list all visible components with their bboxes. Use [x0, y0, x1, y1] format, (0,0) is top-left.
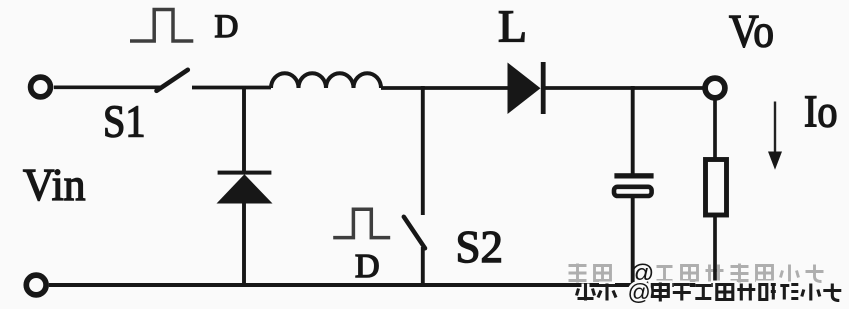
svg-text:Io: Io	[804, 87, 838, 137]
node wire: top rail down to capacitor	[631, 86, 635, 174]
capacitor bottom plate (hollow)	[614, 187, 652, 196]
wire S1 to inductor	[192, 86, 271, 90]
wire S2 to bottom rail	[421, 247, 425, 285]
wire capacitor to bottom rail	[631, 197, 635, 285]
node wire: top rail down to S2	[421, 86, 425, 215]
svg-text:D: D	[215, 9, 239, 45]
svg-text:D: D	[355, 248, 380, 285]
terminal Vin- (bottom-left)	[26, 275, 46, 295]
switch S2 blade	[404, 217, 425, 249]
switch S1 blade	[157, 70, 188, 91]
diode D1 cathode bar	[541, 62, 546, 114]
pulse waveform symbol near S2	[333, 209, 390, 237]
watermark line 2 (black w/ white halo): 头条 @电子工程师助理小七	[577, 283, 842, 302]
node wire: top rail down to shunt diode	[242, 86, 246, 171]
wire diode to output terminal	[545, 86, 705, 90]
wire Vo terminal down to resistor	[713, 100, 717, 157]
svg-text:Vin: Vin	[23, 159, 86, 210]
wire shunt diode to bottom rail	[242, 202, 246, 285]
shunt diode cathode bar	[218, 171, 272, 175]
wire top-left to S1	[54, 85, 160, 89]
inductor L coil	[271, 73, 381, 88]
svg-text:L: L	[498, 1, 527, 52]
shunt diode triangle (pointing up)	[217, 174, 273, 203]
svg-text:Vo: Vo	[729, 5, 774, 57]
terminal Vo (top-right)	[705, 78, 725, 98]
pulse waveform symbol near S1	[130, 10, 193, 42]
Io arrow	[774, 102, 776, 154]
diode D1 (series, after L) triangle	[508, 63, 541, 115]
resistor body	[706, 160, 727, 216]
watermark line 1 (gray): 知乎 @工程师助理小七	[569, 264, 824, 283]
wire inductor to diode	[381, 86, 508, 90]
svg-text:@: @	[628, 279, 651, 305]
terminal Vin+ (top-left)	[31, 77, 51, 97]
svg-text:S2: S2	[456, 221, 504, 272]
wire resistor to bottom rail	[713, 217, 717, 285]
svg-text:S1: S1	[103, 95, 146, 146]
capacitor top plate	[614, 173, 653, 178]
bottom rail wire	[49, 283, 717, 287]
